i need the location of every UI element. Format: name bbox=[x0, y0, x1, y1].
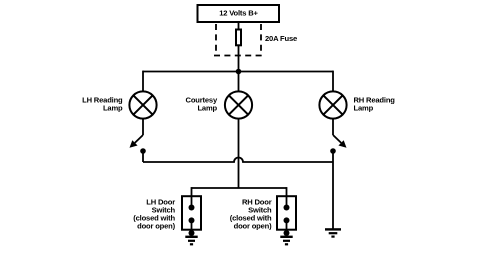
svg-text:Lamp: Lamp bbox=[103, 104, 123, 113]
top supply bus wire bbox=[143, 71, 333, 73]
svg-text:12 Volts B+: 12 Volts B+ bbox=[219, 9, 258, 18]
wire battery to fuse bbox=[238, 22, 240, 30]
label RH Door Switch bbox=[230, 197, 272, 230]
battery box 12 Volts B+ bbox=[198, 5, 280, 22]
svg-text:Lamp: Lamp bbox=[197, 104, 217, 113]
wire to LH door switch bbox=[191, 187, 193, 196]
label RH Reading Lamp bbox=[354, 96, 396, 113]
svg-text:Lamp: Lamp bbox=[354, 104, 374, 113]
label LH Door Switch bbox=[133, 197, 175, 230]
lamp Courtesy (circle with X) bbox=[225, 91, 252, 118]
wire courtesy lamp to door switch bus bbox=[238, 119, 240, 188]
fuse F1 20A bbox=[236, 30, 241, 46]
RH door switch bbox=[277, 196, 296, 236]
junction dot on top bus bbox=[236, 69, 242, 75]
lamp LH Reading (circle with X) bbox=[129, 91, 156, 118]
fuse holder dashed outline bbox=[214, 24, 263, 56]
ground (RH door switch) bbox=[280, 237, 292, 245]
svg-text:door open): door open) bbox=[137, 222, 175, 231]
wire to RH door switch bbox=[286, 187, 288, 196]
switch return bus with hop over courtesy wire bbox=[143, 158, 333, 163]
LH reading lamp switch bbox=[130, 119, 146, 162]
wire bus to LH lamp bbox=[142, 71, 144, 92]
wire RH lamp switch to ground bbox=[332, 151, 334, 229]
lamp RH Reading (circle with X) bbox=[319, 91, 346, 118]
label LH Reading Lamp bbox=[82, 96, 123, 113]
wire fuse to top bus bbox=[238, 46, 240, 72]
svg-text:door open): door open) bbox=[234, 222, 272, 231]
wire bus to RH lamp bbox=[332, 71, 334, 92]
ground (right, chassis) bbox=[325, 229, 341, 236]
RH reading lamp switch bbox=[330, 119, 346, 154]
LH door switch bbox=[182, 196, 201, 236]
ground (LH door switch) bbox=[185, 237, 197, 245]
wire bus to courtesy lamp bbox=[238, 72, 240, 92]
label Courtesy Lamp bbox=[186, 96, 218, 113]
svg-text:20A Fuse: 20A Fuse bbox=[265, 34, 297, 43]
door switch bus wire bbox=[192, 187, 287, 189]
